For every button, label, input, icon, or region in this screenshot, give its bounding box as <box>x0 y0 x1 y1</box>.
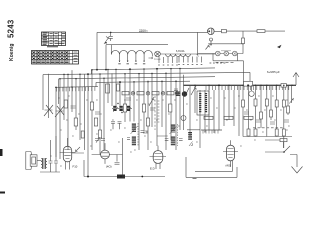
output transformer <box>41 158 47 169</box>
resistor cluster mid <box>90 102 172 138</box>
resistors right <box>242 99 290 136</box>
trimmer caps pair <box>95 137 105 142</box>
resistor R3 <box>64 100 67 108</box>
vertical wires right <box>190 85 292 148</box>
resistor heater <box>242 38 245 44</box>
svg-text:5243: 5243 <box>7 19 16 38</box>
tube V2 triode <box>92 138 123 177</box>
rectifier tube AZ41 <box>208 28 215 35</box>
capacitor at mains line <box>109 32 113 41</box>
caps at speaker <box>49 161 59 163</box>
bottom rail left <box>84 160 165 177</box>
switch arrow mid <box>149 97 154 106</box>
trimmer cap row <box>111 103 132 129</box>
connector Dx <box>244 81 253 86</box>
capacitors mid <box>95 98 155 133</box>
decoupling block <box>117 175 125 179</box>
phono loop <box>186 157 237 177</box>
diode circle <box>181 116 186 121</box>
pin ticks row left <box>159 57 177 63</box>
cell cross marks <box>32 51 77 63</box>
ground arrow <box>292 167 303 174</box>
dial lamps <box>216 51 221 56</box>
dial scale ticks <box>158 101 160 122</box>
mech link dashed <box>154 96 156 130</box>
svg-text:6,3V/2A: 6,3V/2A <box>176 50 185 53</box>
wire heater left <box>198 32 216 55</box>
wire mains second <box>106 45 168 70</box>
switch arrows band <box>185 86 197 96</box>
bottom rail right section <box>243 136 292 138</box>
tiny value labels speckle <box>50 96 290 166</box>
IF transformer 4 <box>197 91 209 115</box>
title Koenig 5243 (rotated) <box>7 19 16 61</box>
resistor R net <box>257 30 265 33</box>
label 220V <box>139 29 148 33</box>
capacitors right <box>244 112 289 124</box>
svg-text:6+6/65 µF: 6+6/65 µF <box>267 70 280 74</box>
tube V3 <box>150 146 167 169</box>
dot junctions <box>87 68 249 178</box>
arrow feed <box>277 45 282 48</box>
transformer secondary winding <box>166 54 191 57</box>
vertical wires middle <box>85 69 181 176</box>
IF transformer 2 <box>127 123 145 146</box>
lamp dial <box>155 51 161 57</box>
label dashes row <box>253 127 283 129</box>
edge artifact left <box>0 149 3 156</box>
pin ticks row <box>179 57 202 63</box>
resistor R4 <box>74 118 77 126</box>
comb ticks row 3 <box>201 129 222 131</box>
capacitor C4 <box>71 106 76 108</box>
switch S2 <box>206 45 211 50</box>
osc padder coil <box>187 130 200 148</box>
main bus C2 <box>96 81 190 87</box>
wire output right <box>265 151 284 153</box>
edge artifact bottom-left <box>0 192 5 194</box>
main bus A <box>91 68 215 75</box>
main bus C <box>59 77 215 104</box>
oscillator coil <box>174 89 178 96</box>
speaker <box>26 152 42 170</box>
left bus comb <box>55 86 98 89</box>
svg-text:E.D: E.D <box>150 167 155 171</box>
wire to ground <box>290 155 297 168</box>
wire secondary <box>160 53 215 55</box>
switch S1 mains <box>104 37 109 45</box>
vertical wires left <box>48 70 80 159</box>
resistor cluster under bus left <box>106 84 110 93</box>
tuning capacitor <box>44 105 53 116</box>
comb ticks right bus <box>206 86 289 91</box>
svg-text:Koenig: Koenig <box>9 43 15 61</box>
label 64 65 uF <box>267 70 280 74</box>
tube V4 EL84 <box>223 140 238 167</box>
switch arrow right col <box>289 98 294 104</box>
capacitor block <box>222 29 227 32</box>
bottom rail right <box>195 161 233 171</box>
table voltage chart <box>42 32 66 47</box>
junction dots buses <box>55 68 293 88</box>
svg-text:7V 0,3: 7V 0,3 <box>154 59 161 61</box>
main bus B <box>43 72 250 110</box>
svg-text:(4O): (4O) <box>226 164 232 168</box>
connector antenna <box>281 84 286 88</box>
wire corner right-mid <box>183 75 185 130</box>
transformer primary taps <box>111 45 153 64</box>
electrolytic <box>249 91 254 96</box>
bus D thick right <box>184 84 297 86</box>
potentiometer dark knob <box>182 91 187 96</box>
resistor row under bus <box>122 91 179 95</box>
svg-text:F10: F10 <box>73 165 78 169</box>
switch S3 <box>284 146 290 152</box>
antenna arrow <box>293 73 299 86</box>
wire S2 to dropper <box>208 43 243 45</box>
resistor row low <box>204 116 213 119</box>
wire mains top <box>97 32 197 69</box>
heater sub wire <box>213 54 238 61</box>
IF transformer 3 <box>157 122 183 146</box>
tube V1 EABC80 <box>60 138 85 170</box>
component near switch <box>280 139 287 142</box>
table tube socket chart <box>32 51 79 65</box>
resistor R9 <box>81 131 84 138</box>
svg-text:(4O): (4O) <box>106 165 112 169</box>
